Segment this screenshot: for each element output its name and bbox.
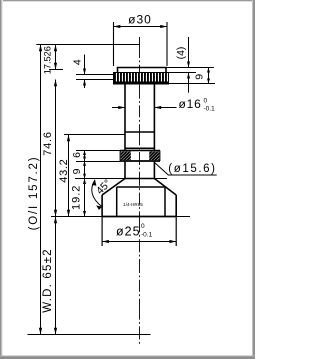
svg-text:9: 9 [71,168,83,174]
svg-text:6: 6 [71,152,83,158]
svg-text:43.2: 43.2 [58,158,70,182]
svg-text:-0.1: -0.1 [141,232,153,239]
svg-text:(4): (4) [175,47,187,60]
svg-text:(O/I 157.2): (O/I 157.2) [28,156,40,231]
svg-text:19.2: 19.2 [71,185,83,210]
svg-text:17.526: 17.526 [43,46,53,74]
svg-text:ø30: ø30 [128,13,152,27]
svg-text:1/4-HR85: 1/4-HR85 [123,202,143,207]
svg-text:74.6: 74.6 [42,131,54,156]
svg-text:0: 0 [204,98,208,105]
svg-text:45°: 45° [94,177,114,197]
svg-text:-0.1: -0.1 [204,106,216,113]
svg-text:0: 0 [141,223,145,230]
svg-text:4: 4 [71,59,83,65]
svg-text:ø16: ø16 [179,97,202,111]
svg-text:ø25: ø25 [116,225,141,239]
svg-text:9: 9 [193,74,205,80]
svg-text:(ø15.6): (ø15.6) [168,163,216,175]
svg-text:W.D. 65±2: W.D. 65±2 [42,248,54,312]
